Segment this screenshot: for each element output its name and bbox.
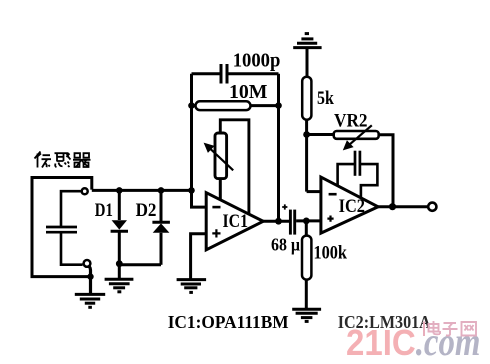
wire feedback right rail — [277, 74, 280, 222]
capacitor C2 68u polarity + — [282, 204, 287, 209]
svg-text:IC1:OPA111BM: IC1:OPA111BM — [168, 312, 289, 332]
ground (IC1 +) — [177, 280, 207, 293]
ground (top, inverted) — [293, 34, 321, 48]
junction feedback/output — [275, 218, 282, 225]
junction D1/input — [116, 187, 123, 194]
svg-text:VR2: VR2 — [334, 111, 368, 131]
wire IC1 output — [263, 220, 289, 223]
junction 10M left — [188, 102, 195, 109]
sensor internal capacitor — [46, 191, 83, 265]
capacitor C1 1000p — [192, 64, 279, 84]
capacitor C2 68u — [290, 210, 321, 235]
diode D2 — [119, 190, 170, 264]
wire sensor bottom to ground — [89, 267, 90, 294]
ground (D1/D2) — [105, 279, 134, 292]
op-amp U1 IC1 — [206, 193, 263, 250]
svg-text:68 µ: 68 µ — [271, 235, 301, 255]
wire IC1 + input to ground — [191, 234, 207, 279]
junction feedback/input — [188, 187, 195, 194]
junction D1 ground — [116, 260, 123, 267]
svg-text:D1: D1 — [95, 200, 113, 221]
watermark bar — [423, 322, 425, 337]
wire feedback left rail — [192, 74, 207, 207]
wire IC2 output — [378, 205, 427, 208]
ground (100k) — [292, 309, 321, 321]
diode D1 — [111, 190, 128, 263]
svg-text:IC2: IC2 — [339, 196, 365, 217]
op-amp U2 IC2 — [321, 177, 378, 233]
sensor label 传感器 — [35, 152, 91, 168]
resistor R3 5k — [302, 49, 311, 192]
svg-text:1000p: 1000p — [233, 51, 281, 72]
wire D1 to ground — [118, 264, 121, 279]
svg-text:21IC: 21IC — [346, 322, 416, 363]
trimmer VR1 — [204, 120, 249, 215]
junction VR2/5k — [303, 131, 310, 138]
junction sensor shield/ground — [87, 273, 93, 279]
sensor terminal (top) — [82, 188, 88, 194]
svg-text:100k: 100k — [314, 243, 348, 263]
svg-text:10M: 10M — [229, 82, 268, 103]
junction IC2 + input — [303, 218, 310, 225]
sensor terminal (bottom) — [84, 260, 91, 267]
junction D2/input — [158, 187, 165, 194]
resistor R2 100k — [302, 221, 311, 309]
output terminal — [428, 203, 436, 211]
resistor R1 10M — [192, 101, 279, 110]
ground (sensor) — [75, 294, 105, 307]
svg-text:IC1: IC1 — [223, 211, 249, 232]
capacitor C3 comp (IC2) — [338, 151, 378, 199]
svg-text:D2: D2 — [136, 200, 157, 221]
watermark 电子网 — [429, 321, 477, 336]
junction 10M/1000p right — [275, 102, 282, 109]
wire main input net — [92, 189, 192, 192]
junction VR2/output — [389, 203, 396, 210]
sensor box (shield) — [32, 178, 92, 277]
trimmer VR2 — [307, 125, 393, 206]
svg-text:5k: 5k — [317, 88, 334, 109]
wire 5k to IC2 - input — [307, 190, 321, 193]
